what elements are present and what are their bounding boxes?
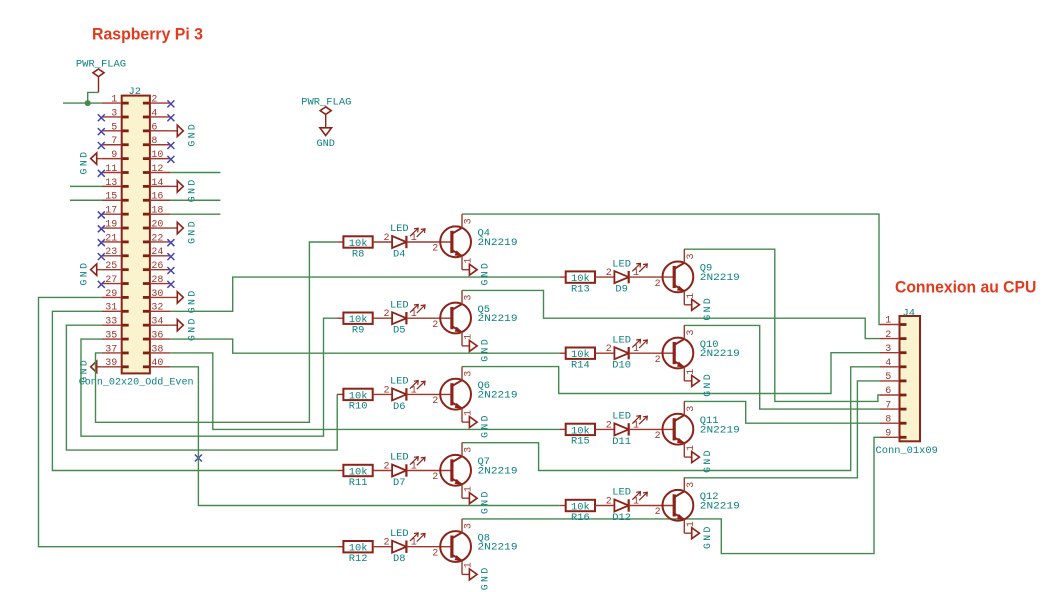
svg-text:1: 1 <box>111 95 117 106</box>
wire J2 pin 36 to R14 <box>170 339 559 353</box>
label Q11 reference <box>700 415 719 427</box>
power symbol GND at J2 pin 30 <box>170 288 197 313</box>
power symbol GND at J2 pin 34 <box>170 316 197 341</box>
svg-text:17: 17 <box>105 206 117 217</box>
label Q6 value 2N2219 <box>478 389 518 401</box>
pin number 1 of D6 <box>411 385 417 396</box>
label Q7 reference <box>478 456 490 468</box>
svg-text:2: 2 <box>432 320 438 331</box>
svg-text:1: 1 <box>464 486 475 492</box>
power symbol GND at J2 pin 6 <box>170 122 197 147</box>
label Q11 value 2N2219 <box>700 424 740 436</box>
label R13 reference <box>571 283 590 295</box>
svg-text:12: 12 <box>151 164 163 175</box>
svg-text:3: 3 <box>464 218 475 224</box>
transistor Q9 2N2219 <box>663 249 694 305</box>
svg-text:18: 18 <box>151 206 163 217</box>
pin number 1 (emitter) of Q11 <box>686 445 697 451</box>
pin number 3 (collector) of Q12 <box>686 482 697 488</box>
wire Q5 collector to J4 pin 2 <box>462 290 880 338</box>
resistor R8 10k <box>337 236 392 250</box>
resistor R9 10k <box>337 313 392 327</box>
wire J2 pin 33 to R10 <box>66 325 337 450</box>
svg-text:2: 2 <box>606 497 612 508</box>
LED D9 <box>614 263 674 283</box>
svg-text:1: 1 <box>885 316 891 327</box>
svg-text:D4: D4 <box>393 248 405 260</box>
svg-text:2: 2 <box>432 244 438 255</box>
label Q9 value 2N2219 <box>700 272 740 284</box>
label R9 reference <box>352 325 364 337</box>
svg-text:5: 5 <box>885 372 891 383</box>
LED D4 <box>392 228 452 248</box>
pin number 3 (collector) of Q8 <box>464 523 475 529</box>
wire J2 pin 38 to R15 <box>170 353 559 429</box>
label LED type for D4 <box>390 223 409 235</box>
label D10 reference <box>612 360 631 372</box>
svg-text:1: 1 <box>464 334 475 340</box>
svg-text:R13: R13 <box>571 283 590 295</box>
svg-text:2: 2 <box>655 355 661 366</box>
svg-text:D12: D12 <box>612 512 631 524</box>
svg-text:35: 35 <box>105 330 117 341</box>
svg-text:2: 2 <box>606 344 612 355</box>
svg-text:32: 32 <box>151 303 163 314</box>
no-connect X mark floating on pin40 wire <box>195 455 202 462</box>
label J2 value Conn_02x20_Odd_Even <box>79 376 194 388</box>
svg-text:9: 9 <box>111 150 117 161</box>
svg-text:2N2219: 2N2219 <box>478 542 518 554</box>
svg-text:R8: R8 <box>352 248 364 260</box>
connector J2 inner pin stubs <box>122 103 149 367</box>
svg-text:37: 37 <box>105 344 117 355</box>
svg-text:3: 3 <box>464 295 475 301</box>
svg-text:D11: D11 <box>612 436 631 448</box>
svg-text:11: 11 <box>105 164 117 175</box>
wire J2 pin 12 stub <box>170 172 220 174</box>
pin number 2 of D6 <box>383 385 389 396</box>
pin number 1 (emitter) of Q10 <box>686 369 697 375</box>
pin number 1 of D11 <box>633 420 639 431</box>
svg-text:8: 8 <box>151 136 157 147</box>
svg-text:R11: R11 <box>349 477 368 489</box>
svg-text:7: 7 <box>111 136 117 147</box>
svg-text:3: 3 <box>464 523 475 529</box>
svg-text:40: 40 <box>151 358 163 369</box>
svg-text:2: 2 <box>383 309 389 320</box>
svg-text:2: 2 <box>383 538 389 549</box>
wire J2 pin 40 to R16 <box>170 367 559 506</box>
svg-text:2: 2 <box>655 279 661 290</box>
pin number 1 of D10 <box>633 344 639 355</box>
label Q5 value 2N2219 <box>478 313 518 325</box>
svg-text:5: 5 <box>111 122 117 133</box>
power symbol GND at Q6 emitter <box>462 413 491 438</box>
connector J2 pin leads <box>102 103 171 367</box>
svg-text:R9: R9 <box>352 325 364 337</box>
svg-text:34: 34 <box>151 317 163 328</box>
svg-text:7: 7 <box>885 400 891 411</box>
wire J2 pin 18 stub <box>170 213 220 215</box>
svg-text:2N2219: 2N2219 <box>700 500 740 512</box>
svg-text:6: 6 <box>885 386 891 397</box>
connector J4 body (Conn_01x09) <box>900 316 921 441</box>
svg-text:GND: GND <box>480 413 491 438</box>
pin number 2 of D7 <box>383 462 389 473</box>
power flag PWR_FLAG near J2 pin 1 <box>76 58 126 92</box>
svg-text:1: 1 <box>411 233 417 244</box>
svg-text:R14: R14 <box>571 360 590 372</box>
power symbol GND at Q11 emitter <box>684 448 713 473</box>
label R8 reference <box>352 248 364 260</box>
label R11 reference <box>349 477 368 489</box>
power symbol GND at J2 pin 20 <box>170 219 197 244</box>
label Q9 reference <box>700 263 712 275</box>
label R10 reference <box>349 401 368 413</box>
svg-text:4: 4 <box>885 358 891 369</box>
svg-text:26: 26 <box>151 261 163 272</box>
LED D6 <box>392 381 452 401</box>
transistor Q11 2N2219 <box>663 402 694 458</box>
pin number 2 of D10 <box>606 344 612 355</box>
svg-text:1: 1 <box>633 268 639 279</box>
wire J2 pin 15 stub <box>70 199 102 201</box>
transistor Q6 2N2219 <box>440 367 471 423</box>
pin number 3 (collector) of Q6 <box>464 371 475 377</box>
resistor R16 10k <box>559 500 614 514</box>
transistor Q10 2N2219 <box>663 325 694 381</box>
svg-text:28: 28 <box>151 275 163 286</box>
svg-text:4: 4 <box>151 108 157 119</box>
transistor Q4 2N2219 <box>440 214 471 270</box>
svg-text:GND: GND <box>79 150 90 175</box>
svg-text:2: 2 <box>383 385 389 396</box>
power symbol GND under PWR_FLAG <box>317 128 335 150</box>
svg-text:2N2219: 2N2219 <box>700 348 740 360</box>
pin number 3 (collector) of Q11 <box>686 406 697 412</box>
svg-text:PWR_FLAG: PWR_FLAG <box>76 58 126 70</box>
pin number 1 (emitter) of Q6 <box>464 410 475 416</box>
svg-text:2: 2 <box>151 95 157 106</box>
pin number 1 (emitter) of Q9 <box>686 293 697 299</box>
svg-text:1: 1 <box>633 344 639 355</box>
label R15 reference <box>571 436 590 448</box>
svg-text:23: 23 <box>105 247 117 258</box>
svg-text:Conn_01x09: Conn_01x09 <box>876 445 938 457</box>
svg-text:1: 1 <box>411 538 417 549</box>
svg-text:2: 2 <box>655 431 661 442</box>
LED D5 <box>392 304 452 324</box>
wire J2 pin 1 stub <box>63 102 102 104</box>
wire Q11 collector to J4 pin 8 <box>684 401 880 423</box>
resistor R14 10k <box>559 348 614 362</box>
svg-text:LED: LED <box>390 223 409 235</box>
wire J2 pin 13 stub <box>70 185 102 187</box>
pin number 1 of D8 <box>411 538 417 549</box>
resistor R10 10k <box>337 389 392 403</box>
svg-text:R15: R15 <box>571 436 590 448</box>
power symbol GND at J2 pin 25 <box>79 261 102 286</box>
pin number 1 of D9 <box>633 268 639 279</box>
pin number 2 (base) of Q9 <box>655 279 661 290</box>
label Q4 value 2N2219 <box>478 237 518 249</box>
pin number 2 of D5 <box>383 309 389 320</box>
pin number 1 (emitter) of Q8 <box>464 562 475 568</box>
LED D10 <box>614 339 674 359</box>
connector J4 inner pin stubs <box>900 325 907 438</box>
svg-text:GND: GND <box>187 219 198 244</box>
label Q5 reference <box>478 304 490 316</box>
label LED type for D8 <box>390 528 409 540</box>
svg-text:1: 1 <box>633 497 639 508</box>
pin number 3 (collector) of Q7 <box>464 447 475 453</box>
label LED type for D11 <box>612 411 631 423</box>
svg-text:2N2219: 2N2219 <box>478 465 518 477</box>
svg-text:25: 25 <box>105 261 117 272</box>
svg-text:2N2219: 2N2219 <box>478 389 518 401</box>
power symbol GND at Q12 emitter <box>684 524 713 549</box>
no-connect X marks on J2 unused pins <box>98 100 175 287</box>
svg-text:10: 10 <box>151 150 163 161</box>
svg-text:21: 21 <box>105 233 117 244</box>
svg-text:GND: GND <box>702 372 713 397</box>
svg-text:1: 1 <box>633 420 639 431</box>
pin number 3 (collector) of Q9 <box>686 253 697 259</box>
transistor Q8 2N2219 <box>440 519 471 575</box>
svg-text:D5: D5 <box>393 325 405 337</box>
svg-text:D8: D8 <box>393 553 405 565</box>
connector J2 body (Conn_02x20_Odd_Even) <box>122 96 150 374</box>
label Q8 value 2N2219 <box>478 542 518 554</box>
resistor R12 10k <box>337 541 392 555</box>
svg-text:LED: LED <box>390 452 409 464</box>
pin number 3 (collector) of Q5 <box>464 295 475 301</box>
label J4 value Conn_01x09 <box>876 445 938 457</box>
svg-text:LED: LED <box>612 411 631 423</box>
svg-text:36: 36 <box>151 330 163 341</box>
pin number 1 (emitter) of Q4 <box>464 258 475 264</box>
label Q6 reference <box>478 380 490 392</box>
svg-text:LED: LED <box>390 299 409 311</box>
svg-text:GND: GND <box>702 296 713 321</box>
LED D11 <box>614 416 674 436</box>
pin number 2 of D11 <box>606 420 612 431</box>
wire J2 pin 35 to R9 <box>81 318 337 436</box>
svg-text:J2: J2 <box>129 86 141 98</box>
label LED type for D12 <box>612 487 631 499</box>
svg-text:R10: R10 <box>349 401 368 413</box>
svg-text:GND: GND <box>187 177 198 202</box>
svg-text:27: 27 <box>105 275 117 286</box>
pin number 2 (base) of Q11 <box>655 431 661 442</box>
transistor Q12 2N2219 <box>663 478 694 534</box>
svg-text:J4: J4 <box>903 307 915 319</box>
svg-text:2: 2 <box>655 507 661 518</box>
label Q12 reference <box>700 491 719 503</box>
svg-text:6: 6 <box>151 122 157 133</box>
svg-text:33: 33 <box>105 317 117 328</box>
svg-text:3: 3 <box>111 108 117 119</box>
label R12 reference <box>349 553 368 565</box>
svg-text:38: 38 <box>151 344 163 355</box>
pin number 2 (base) of Q6 <box>432 396 438 407</box>
pin number 1 (emitter) of Q7 <box>464 486 475 492</box>
label D9 reference <box>615 284 627 296</box>
pin number 1 of D4 <box>411 233 417 244</box>
power symbol GND at Q9 emitter <box>684 296 713 321</box>
svg-text:3: 3 <box>464 447 475 453</box>
svg-text:GND: GND <box>187 288 198 313</box>
svg-text:D7: D7 <box>393 477 405 489</box>
label J4 reference <box>903 307 915 319</box>
label LED type for D6 <box>390 376 409 388</box>
svg-text:1: 1 <box>686 293 697 299</box>
pin number 3 (collector) of Q10 <box>686 330 697 336</box>
connector J4 pin numbers 1-9 <box>885 316 891 440</box>
svg-text:24: 24 <box>151 247 163 258</box>
label Q12 value 2N2219 <box>700 500 740 512</box>
power symbol GND at Q5 emitter <box>462 337 491 362</box>
wire J2 pin 29 to R12 <box>39 297 338 546</box>
svg-text:1: 1 <box>464 258 475 264</box>
pin number 2 (base) of Q10 <box>655 355 661 366</box>
svg-text:Connexion au CPU: Connexion au CPU <box>895 278 1036 296</box>
svg-text:3: 3 <box>686 330 697 336</box>
svg-text:GND: GND <box>317 139 335 150</box>
svg-text:31: 31 <box>105 303 117 314</box>
svg-text:14: 14 <box>151 178 163 189</box>
pin number 1 (emitter) of Q12 <box>686 521 697 527</box>
svg-text:1: 1 <box>686 369 697 375</box>
svg-text:15: 15 <box>105 192 117 203</box>
label Q8 reference <box>478 532 490 544</box>
svg-text:1: 1 <box>464 410 475 416</box>
wire Q9 collector to J4 pin 6 <box>684 249 880 401</box>
label D4 reference <box>393 248 405 260</box>
svg-text:1: 1 <box>411 385 417 396</box>
pin number 2 (base) of Q8 <box>432 548 438 559</box>
svg-text:LED: LED <box>612 258 631 270</box>
wire J2 pin 37 to R8 <box>96 242 338 422</box>
resistor R11 10k <box>337 465 392 479</box>
pin number 2 (base) of Q5 <box>432 320 438 331</box>
svg-text:22: 22 <box>151 233 163 244</box>
title text: Connexion au CPU <box>895 278 1036 296</box>
pin number 1 of D12 <box>633 497 639 508</box>
label J2 reference <box>129 86 141 98</box>
label Q10 value 2N2219 <box>700 348 740 360</box>
svg-text:8: 8 <box>885 414 891 425</box>
svg-text:2: 2 <box>432 396 438 407</box>
svg-text:2: 2 <box>432 548 438 559</box>
junction on J2 pin 1 wire <box>85 100 91 106</box>
wire J2 pin 16 stub <box>170 199 220 201</box>
svg-text:GND: GND <box>702 448 713 473</box>
label Q4 reference <box>478 228 490 240</box>
svg-text:1: 1 <box>686 445 697 451</box>
pin number 2 of D9 <box>606 268 612 279</box>
power symbol GND at J2 pin 14 <box>170 177 197 202</box>
wire J2 pin 32 to R13 <box>170 277 559 311</box>
resistor R15 10k <box>559 424 614 438</box>
svg-text:D10: D10 <box>612 360 631 372</box>
title text: Raspberry Pi 3 <box>92 25 203 43</box>
label D12 reference <box>612 512 631 524</box>
svg-text:9: 9 <box>885 429 891 440</box>
svg-text:2N2219: 2N2219 <box>700 272 740 284</box>
svg-text:2: 2 <box>606 420 612 431</box>
pin number 1 (emitter) of Q5 <box>464 334 475 340</box>
svg-text:2: 2 <box>383 462 389 473</box>
svg-text:GND: GND <box>79 358 90 383</box>
svg-text:2: 2 <box>432 472 438 483</box>
resistor R13 10k <box>559 271 614 285</box>
svg-text:1: 1 <box>686 521 697 527</box>
pin number 2 (base) of Q4 <box>432 244 438 255</box>
svg-text:GND: GND <box>480 489 491 514</box>
svg-text:D6: D6 <box>393 401 405 413</box>
label Q10 reference <box>700 339 719 351</box>
svg-text:R16: R16 <box>571 512 590 524</box>
label D7 reference <box>393 477 405 489</box>
svg-text:LED: LED <box>390 376 409 388</box>
power symbol GND at J2 pin 39 <box>79 358 102 383</box>
pin number 2 of D8 <box>383 538 389 549</box>
label LED type for D9 <box>612 258 631 270</box>
svg-text:GND: GND <box>480 337 491 362</box>
pin number 2 of D12 <box>606 497 612 508</box>
svg-text:2: 2 <box>606 268 612 279</box>
svg-text:GND: GND <box>480 565 491 590</box>
transistor Q5 2N2219 <box>440 290 471 346</box>
label LED type for D5 <box>390 299 409 311</box>
svg-text:R12: R12 <box>349 553 368 565</box>
svg-text:2: 2 <box>885 330 891 341</box>
svg-text:19: 19 <box>105 219 117 230</box>
svg-text:2N2219: 2N2219 <box>478 313 518 325</box>
label D6 reference <box>393 401 405 413</box>
svg-text:3: 3 <box>686 406 697 412</box>
pin number 2 of D4 <box>383 233 389 244</box>
svg-text:1: 1 <box>411 462 417 473</box>
svg-text:29: 29 <box>105 289 117 300</box>
LED D8 <box>392 533 452 553</box>
svg-text:GND: GND <box>79 261 90 286</box>
power symbol GND at Q7 emitter <box>462 489 491 514</box>
pin number 2 (base) of Q12 <box>655 507 661 518</box>
svg-text:1: 1 <box>464 562 475 568</box>
connector J4 pin leads <box>880 325 900 438</box>
svg-text:39: 39 <box>105 358 117 369</box>
svg-text:3: 3 <box>464 371 475 377</box>
power symbol GND at Q8 emitter <box>462 565 491 590</box>
power flag PWR_FLAG (floating, tied to GND) <box>301 97 351 128</box>
label R16 reference <box>571 512 590 524</box>
wire Q8 collector to J4 pin 9 <box>462 437 880 553</box>
svg-text:13: 13 <box>105 178 117 189</box>
LED D12 <box>614 492 674 512</box>
pin number 1 of D7 <box>411 462 417 473</box>
svg-text:3: 3 <box>885 344 891 355</box>
wire Q10 collector to J4 pin 7 <box>684 325 880 409</box>
svg-text:GND: GND <box>187 316 198 341</box>
connector J2 pin numbers 1-40 <box>105 95 163 370</box>
power symbol GND at J2 pin 9 <box>79 150 102 175</box>
label D11 reference <box>612 436 631 448</box>
label LED type for D10 <box>612 334 631 346</box>
label Q7 value 2N2219 <box>478 465 518 477</box>
svg-text:2: 2 <box>383 233 389 244</box>
